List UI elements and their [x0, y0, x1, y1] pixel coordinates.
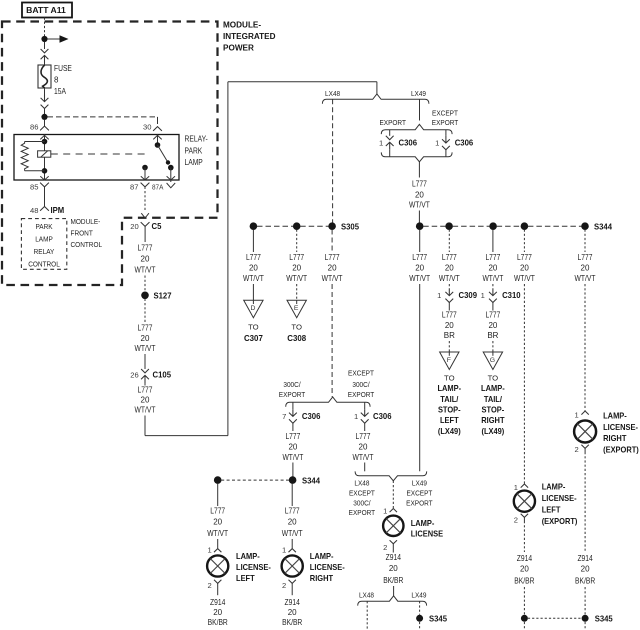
svg-text:Z914: Z914 — [210, 598, 226, 607]
svg-text:LX49: LX49 — [412, 479, 427, 488]
svg-text:C306: C306 — [455, 138, 474, 148]
lamp LAMP-LICENSE-RIGHT (EXPORT) pin 1 — [574, 410, 588, 419]
svg-text:C105: C105 — [153, 370, 172, 380]
inline connector above fuse — [41, 49, 49, 63]
lamp LAMP-LICENSE-LEFT (EXPORT) — [514, 491, 535, 512]
connector C306 pin 7 — [282, 409, 321, 423]
connector C306 pin 1 (EXPORT) — [379, 136, 417, 150]
svg-text:20: 20 — [389, 564, 398, 573]
svg-text:1: 1 — [282, 546, 286, 555]
splice row S344 (upper) — [416, 222, 612, 232]
svg-text:7: 7 — [282, 412, 286, 421]
inline connector below fuse — [41, 95, 49, 109]
svg-text:20: 20 — [288, 518, 297, 527]
svg-text:STOP-: STOP- — [438, 405, 461, 415]
lamp LAMP-LICENSE pin 1 — [383, 507, 397, 516]
svg-text:L777: L777 — [246, 253, 261, 262]
wire merge to lamp-license — [392, 481, 394, 508]
svg-text:L777: L777 — [138, 324, 153, 333]
wire to triangle G — [492, 341, 494, 352]
svg-text:G: G — [490, 357, 495, 364]
brace split LX48/LX49 — [322, 94, 429, 104]
svg-text:LEFT: LEFT — [542, 504, 561, 514]
svg-text:TO: TO — [291, 323, 302, 332]
connector C5 pin 20 — [130, 221, 161, 231]
splice S345 (center) — [416, 614, 447, 624]
svg-text:20: 20 — [359, 443, 368, 452]
relay pin 87A — [152, 183, 175, 192]
svg-text:CONTROL: CONTROL — [28, 260, 60, 269]
wire S344 to C309 — [448, 230, 450, 253]
svg-text:300C/: 300C/ — [352, 380, 370, 389]
label LX48 (ground split) — [359, 591, 374, 600]
svg-text:20: 20 — [581, 565, 590, 574]
svg-text:BK/BR: BK/BR — [282, 618, 302, 627]
wire LX48 column down to 300C brace — [331, 284, 333, 397]
wire below C309 — [448, 303, 450, 311]
wire label L777 20 WT/VT (to lower S344) — [282, 432, 303, 462]
off-page triangle E — [287, 300, 306, 318]
svg-text:RIGHT: RIGHT — [603, 433, 627, 443]
svg-text:INTEGRATED: INTEGRATED — [223, 31, 276, 41]
wire to LX48/LX49 ground brace — [393, 586, 395, 596]
lamp LAMP-LICENSE-RIGHT (EXPORT) pin 2 — [574, 445, 588, 454]
connector pin 48 into IPM — [30, 205, 64, 215]
svg-text:2: 2 — [383, 543, 387, 552]
svg-text:BATT A11: BATT A11 — [26, 5, 66, 15]
brace split 300C/EXPORT vs EXCEPT — [286, 397, 370, 407]
svg-text:WT/VT: WT/VT — [135, 266, 156, 275]
svg-text:L777: L777 — [138, 244, 153, 253]
wire to S344 row — [418, 211, 420, 223]
svg-text:TAIL/: TAIL/ — [440, 394, 459, 404]
svg-text:LEFT: LEFT — [236, 573, 255, 583]
wire below C310 — [492, 303, 494, 311]
wire from BATT A11 down into IPM — [44, 18, 46, 37]
svg-text:15A: 15A — [54, 87, 67, 96]
wire ground LX48 branch down — [366, 601, 368, 630]
label LX48 EXCEPT 300C/EXPORT — [349, 479, 376, 518]
svg-text:WT/VT: WT/VT — [322, 274, 343, 283]
splice row S344 (lower) — [214, 475, 320, 485]
svg-text:TO: TO — [444, 374, 455, 383]
wire S344 to lamp-license-right export — [584, 230, 586, 253]
label LX49 EXCEPT EXPORT — [406, 479, 433, 508]
svg-text:LAMP-: LAMP- — [310, 551, 334, 561]
svg-text:1: 1 — [383, 507, 387, 516]
svg-text:20: 20 — [445, 321, 454, 330]
label 300C/EXPORT — [279, 380, 306, 399]
wire to triangle F — [448, 341, 450, 352]
svg-text:LX48: LX48 — [354, 479, 369, 488]
svg-text:300C/: 300C/ — [283, 380, 301, 389]
svg-text:20: 20 — [288, 443, 297, 452]
wire below S345 center — [419, 622, 421, 630]
wire C105 branch down and right to riser — [145, 416, 228, 436]
svg-text:LX48: LX48 — [325, 89, 340, 98]
svg-text:87: 87 — [130, 183, 138, 192]
svg-text:L777: L777 — [356, 432, 371, 441]
svg-text:(EXPORT): (EXPORT) — [542, 516, 578, 526]
wire label L777 20 WT/VT (col D) — [243, 253, 264, 283]
svg-text:CONTROL: CONTROL — [71, 240, 103, 249]
svg-text:WT/VT: WT/VT — [135, 344, 156, 353]
svg-text:LICENSE-: LICENSE- — [603, 422, 638, 432]
svg-text:20: 20 — [130, 222, 138, 231]
svg-text:EXPORT: EXPORT — [349, 508, 376, 517]
wire label L777 20 WT/VT (to S344 row) — [409, 180, 430, 210]
brace split EXPORT/EXCEPT EXPORT — [381, 124, 452, 134]
svg-text:LX49: LX49 — [411, 89, 426, 98]
svg-text:(LX49): (LX49) — [482, 426, 505, 436]
svg-text:LAMP: LAMP — [185, 158, 203, 167]
svg-text:FUSE: FUSE — [54, 64, 72, 73]
svg-text:L777: L777 — [442, 253, 457, 262]
svg-text:C310: C310 — [502, 290, 521, 300]
wire label L777 20 WT/VT (LX48 column) — [322, 253, 343, 283]
battery feed terminal BATT A11 — [22, 3, 72, 18]
svg-text:20: 20 — [213, 518, 222, 527]
connector C310 pin 1 — [481, 289, 521, 303]
svg-text:LICENSE-: LICENSE- — [310, 562, 345, 572]
brace split ground LX48/LX49 — [358, 596, 427, 606]
off-page triangle G — [483, 352, 502, 370]
svg-text:LAMP-: LAMP- — [542, 482, 566, 492]
svg-text:26: 26 — [130, 371, 138, 380]
svg-text:BK/BR: BK/BR — [383, 576, 403, 585]
label LX49 — [411, 89, 426, 98]
label LAMP-LICENSE-RIGHT — [310, 551, 345, 583]
wire label Z914 20 BK/BR (license right) — [282, 598, 302, 627]
svg-text:LAMP-: LAMP- — [481, 383, 505, 393]
label RELAY-PARK LAMP — [185, 135, 208, 168]
svg-text:20: 20 — [288, 608, 297, 617]
riser wire up to top distribution — [227, 82, 229, 436]
svg-text:Z914: Z914 — [285, 598, 301, 607]
svg-text:87A: 87A — [152, 183, 164, 192]
svg-text:WT/VT: WT/VT — [353, 453, 374, 462]
svg-text:IPM: IPM — [51, 205, 65, 215]
off-page triangle F — [440, 352, 459, 370]
svg-text:LX49: LX49 — [411, 591, 426, 600]
svg-text:C5: C5 — [152, 221, 162, 231]
connector C306 pin 1 (except 300C/export) — [354, 409, 392, 423]
connector C105 pin 26 — [130, 369, 171, 383]
relay coil node bottom — [42, 168, 48, 174]
svg-text:(LX49): (LX49) — [438, 426, 461, 436]
wire to S345 (export right) — [584, 587, 586, 615]
svg-text:S345: S345 — [429, 614, 447, 624]
svg-text:20: 20 — [445, 264, 454, 273]
wire lower S344 to lamp-license-left — [217, 483, 219, 506]
relay coil solenoid symbol — [38, 151, 51, 157]
svg-text:20: 20 — [488, 264, 497, 273]
lamp LAMP-LICENSE-RIGHT pin 2 — [282, 580, 296, 595]
wire S344 to lamp-license-left export — [523, 230, 525, 253]
svg-text:2: 2 — [282, 581, 286, 590]
wire label L777 20 BR (col C309) — [442, 311, 457, 341]
label EXCEPT 300C/EXPORT — [348, 369, 375, 400]
svg-text:WT/VT: WT/VT — [243, 274, 264, 283]
svg-text:1: 1 — [514, 483, 518, 492]
svg-text:EXPORT: EXPORT — [432, 118, 459, 127]
wire label L777 20 WT/VT (col C310) — [482, 253, 503, 283]
svg-text:LAMP-: LAMP- — [411, 518, 435, 528]
svg-text:EXPORT: EXPORT — [379, 118, 406, 127]
svg-text:C308: C308 — [287, 333, 306, 343]
svg-text:L777: L777 — [485, 253, 500, 262]
wire S344 to C310 — [492, 230, 494, 253]
wire label L777 20 WT/VT (except 300C branch) — [353, 432, 374, 462]
lamp LAMP-LICENSE-RIGHT — [282, 555, 303, 576]
node - splice to other circuits with arrow — [41, 35, 68, 43]
lamp LAMP-LICENSE-LEFT pin 2 — [207, 580, 221, 595]
svg-text:1: 1 — [354, 412, 358, 421]
wire 87 exits IPM with arrow — [141, 213, 149, 218]
module box - front control module (dashed) — [21, 219, 66, 270]
svg-text:L777: L777 — [485, 311, 500, 320]
svg-text:S305: S305 — [341, 222, 359, 232]
label LX48 — [325, 89, 340, 98]
label TO C307 — [244, 323, 263, 344]
svg-text:EXCEPT: EXCEPT — [349, 489, 375, 498]
svg-text:20: 20 — [141, 396, 150, 405]
svg-text:20: 20 — [213, 608, 222, 617]
svg-text:STOP-: STOP- — [482, 405, 505, 415]
svg-text:LICENSE: LICENSE — [411, 529, 444, 539]
svg-text:LX48: LX48 — [359, 591, 374, 600]
wire C5 down — [144, 226, 146, 242]
svg-text:RELAY-: RELAY- — [185, 135, 208, 144]
wire below C105 — [144, 383, 146, 386]
svg-text:RIGHT: RIGHT — [481, 415, 505, 425]
svg-text:C306: C306 — [399, 138, 418, 148]
svg-text:L777: L777 — [517, 253, 532, 262]
wire label L777 20 WT/VT (export left) — [514, 253, 535, 283]
svg-text:LAMP: LAMP — [35, 235, 53, 244]
svg-text:WT/VT: WT/VT — [409, 201, 430, 210]
wire label L777 20 BR (col C310) — [485, 311, 500, 341]
svg-text:20: 20 — [249, 264, 258, 273]
svg-text:20: 20 — [292, 264, 301, 273]
svg-text:2: 2 — [207, 581, 211, 590]
svg-text:WT/VT: WT/VT — [207, 529, 228, 538]
svg-text:LAMP-: LAMP- — [437, 383, 461, 393]
wire down to lamp (export right) — [584, 284, 586, 411]
svg-text:Z914: Z914 — [577, 554, 593, 563]
svg-text:L777: L777 — [325, 253, 340, 262]
svg-text:85: 85 — [30, 183, 38, 192]
label LAMP-LICENSE-LEFT (EXPORT) — [542, 482, 578, 526]
svg-text:S344: S344 — [594, 222, 612, 232]
wire LX48 branch down to S305 — [332, 99, 334, 222]
svg-text:20: 20 — [520, 565, 529, 574]
svg-text:20: 20 — [488, 321, 497, 330]
wire merged down — [418, 162, 420, 178]
svg-text:48: 48 — [30, 206, 38, 215]
lamp LAMP-LICENSE-LEFT pin 1 — [207, 546, 221, 555]
svg-text:WT/VT: WT/VT — [282, 453, 303, 462]
wire lamp to Z914 label (export left) — [523, 521, 525, 552]
svg-text:BR: BR — [487, 331, 498, 340]
wire stub to C306 (except 300C) — [364, 402, 366, 409]
wire label Z914 20 BK/BR (export right) — [575, 554, 595, 586]
svg-text:RIGHT: RIGHT — [310, 573, 334, 583]
svg-text:WT/VT: WT/VT — [575, 274, 596, 283]
relay coil node top — [42, 139, 48, 145]
wire below C306 pin7 — [292, 423, 294, 431]
svg-text:FRONT: FRONT — [71, 229, 94, 238]
svg-text:300C/: 300C/ — [353, 498, 371, 507]
wire stubs below right S345 — [524, 622, 585, 630]
relay pin 85 — [30, 176, 49, 206]
lamp LAMP-LICENSE-LEFT (EXPORT) pin 1 — [514, 483, 528, 492]
module boundary - integrated power module (dashed) — [2, 22, 218, 286]
svg-text:EXPORT: EXPORT — [406, 498, 433, 507]
off-page triangle D — [244, 300, 263, 318]
svg-text:20: 20 — [520, 264, 529, 273]
svg-text:MODULE-: MODULE- — [223, 20, 261, 30]
wire to lamp pin1 (right) — [291, 539, 293, 548]
wire to S345 (export left) — [523, 587, 525, 615]
wire LX49 column down to merge brace — [419, 230, 421, 472]
svg-text:L777: L777 — [412, 180, 427, 189]
label LAMP-LICENSE-RIGHT (EXPORT) — [603, 410, 639, 454]
svg-text:20: 20 — [141, 334, 150, 343]
wire connector to node — [44, 109, 46, 115]
label LX49 (ground split) — [411, 591, 426, 600]
wire to triangle E — [296, 284, 298, 300]
lamp LAMP-LICENSE-LEFT — [207, 555, 228, 576]
svg-text:BR: BR — [444, 331, 455, 340]
svg-text:BK/BR: BK/BR — [208, 618, 228, 627]
svg-text:D: D — [250, 305, 255, 312]
wire to lamp pin1 (left) — [217, 539, 219, 548]
svg-text:BK/BR: BK/BR — [575, 577, 595, 586]
svg-text:20: 20 — [415, 264, 424, 273]
wire to triangle D — [252, 284, 254, 300]
svg-text:LEFT: LEFT — [440, 415, 459, 425]
wire label L777 20 WT/VT (LX49 column) — [409, 253, 430, 283]
wire node to pin 30 (horizontal) — [48, 117, 158, 124]
wire label L777 20 WT/VT (col E) — [286, 253, 307, 283]
wire S305 down (LX48 column) — [331, 230, 333, 253]
svg-text:WT/VT: WT/VT — [135, 406, 156, 415]
svg-text:WT/VT: WT/VT — [409, 274, 430, 283]
svg-text:L777: L777 — [412, 253, 427, 262]
connector C309 pin 1 — [437, 289, 477, 303]
label TO LAMP-TAIL/STOP-LEFT (LX49) — [437, 374, 461, 436]
svg-text:S345: S345 — [595, 614, 613, 624]
relay coil branch main line — [44, 135, 46, 181]
wire down to merge brace — [364, 463, 366, 472]
svg-text:L777: L777 — [138, 386, 153, 395]
svg-text:F: F — [447, 357, 451, 364]
wire dot to connector — [44, 42, 46, 49]
brace merge below C306 pair — [381, 152, 452, 161]
label EXPORT (left C306) — [379, 118, 406, 127]
lamp LAMP-LICENSE pin 2 — [383, 540, 397, 552]
svg-text:L777: L777 — [442, 311, 457, 320]
relay pin 30 — [143, 122, 162, 144]
wire below C306 pin1 — [364, 423, 366, 431]
svg-text:L777: L777 — [285, 507, 300, 516]
lamp LAMP-LICENSE-RIGHT pin 1 — [282, 546, 296, 555]
wire down to lamp (export left) — [523, 284, 525, 484]
wire label L777 20 WT/VT (C5 to S127) — [135, 244, 156, 275]
splice S345 (right) — [521, 614, 613, 624]
wire label L777 20 WT/VT (below C105) — [135, 386, 156, 415]
svg-text:L777: L777 — [285, 432, 300, 441]
svg-text:S127: S127 — [154, 291, 172, 301]
svg-text:POWER: POWER — [223, 43, 255, 53]
svg-text:20: 20 — [581, 264, 590, 273]
label TO C308 — [287, 323, 306, 344]
label LAMP-LICENSE — [411, 518, 444, 539]
svg-text:EXPORT: EXPORT — [279, 390, 306, 399]
relay contact 87 (open) — [141, 165, 149, 180]
svg-text:TO: TO — [248, 323, 259, 332]
label EXCEPT EXPORT (right C306) — [432, 108, 459, 127]
wire label Z914 20 BK/BR (license left) — [208, 598, 228, 627]
splice row S305 — [250, 222, 360, 232]
brace merge above LAMP-LICENSE — [355, 471, 427, 480]
svg-text:Z914: Z914 — [517, 554, 533, 563]
svg-text:2: 2 — [514, 516, 518, 525]
wire to C310 — [492, 284, 494, 289]
wire label Z914 20 BK/BR (below lamp-license) — [383, 553, 403, 585]
relay pin 86 — [30, 120, 49, 142]
svg-text:C306: C306 — [373, 411, 392, 421]
wire label L777 20 WT/VT (license right) — [282, 507, 303, 539]
wire S305 to triangle E — [296, 230, 298, 253]
lamp LAMP-LICENSE — [383, 516, 403, 536]
wire fuse to connector — [44, 88, 46, 95]
relay pin 87 — [130, 183, 149, 211]
svg-text:30: 30 — [143, 122, 151, 131]
wire label L777 20 WT/VT (col C309) — [439, 253, 460, 283]
label MODULE-FRONT CONTROL — [71, 217, 103, 249]
svg-text:C307: C307 — [244, 333, 263, 343]
wire stub to C306 except-export — [445, 130, 447, 136]
wire stub to C306 export — [389, 130, 391, 136]
relay switch common from pin 30 — [155, 135, 161, 148]
wire LX49 branch down — [419, 99, 421, 120]
svg-text:1: 1 — [481, 291, 485, 300]
svg-text:20: 20 — [328, 264, 337, 273]
svg-text:E: E — [294, 305, 299, 312]
wire to S127 — [144, 276, 146, 292]
fuse FUSE 8 15A — [38, 64, 72, 96]
wire to C105 — [144, 354, 146, 369]
wire label L777 20 WT/VT (S127 to C105) — [135, 324, 156, 354]
svg-text:1: 1 — [207, 546, 211, 555]
svg-text:1: 1 — [437, 291, 441, 300]
svg-text:WT/VT: WT/VT — [286, 274, 307, 283]
wire ground LX49 branch to S345 — [419, 601, 421, 614]
svg-text:EXCEPT: EXCEPT — [406, 489, 432, 498]
svg-text:1: 1 — [435, 139, 439, 148]
svg-text:TO: TO — [488, 374, 499, 383]
svg-text:PARK: PARK — [185, 146, 203, 155]
label LAMP-LICENSE-LEFT — [236, 551, 271, 583]
relay mechanical link (dashed) — [51, 153, 150, 155]
svg-text:86: 86 — [30, 122, 38, 131]
svg-text:LAMP-: LAMP- — [236, 551, 260, 561]
svg-text:TAIL/: TAIL/ — [484, 394, 503, 404]
svg-text:WT/VT: WT/VT — [514, 274, 535, 283]
svg-text:L777: L777 — [210, 507, 225, 516]
